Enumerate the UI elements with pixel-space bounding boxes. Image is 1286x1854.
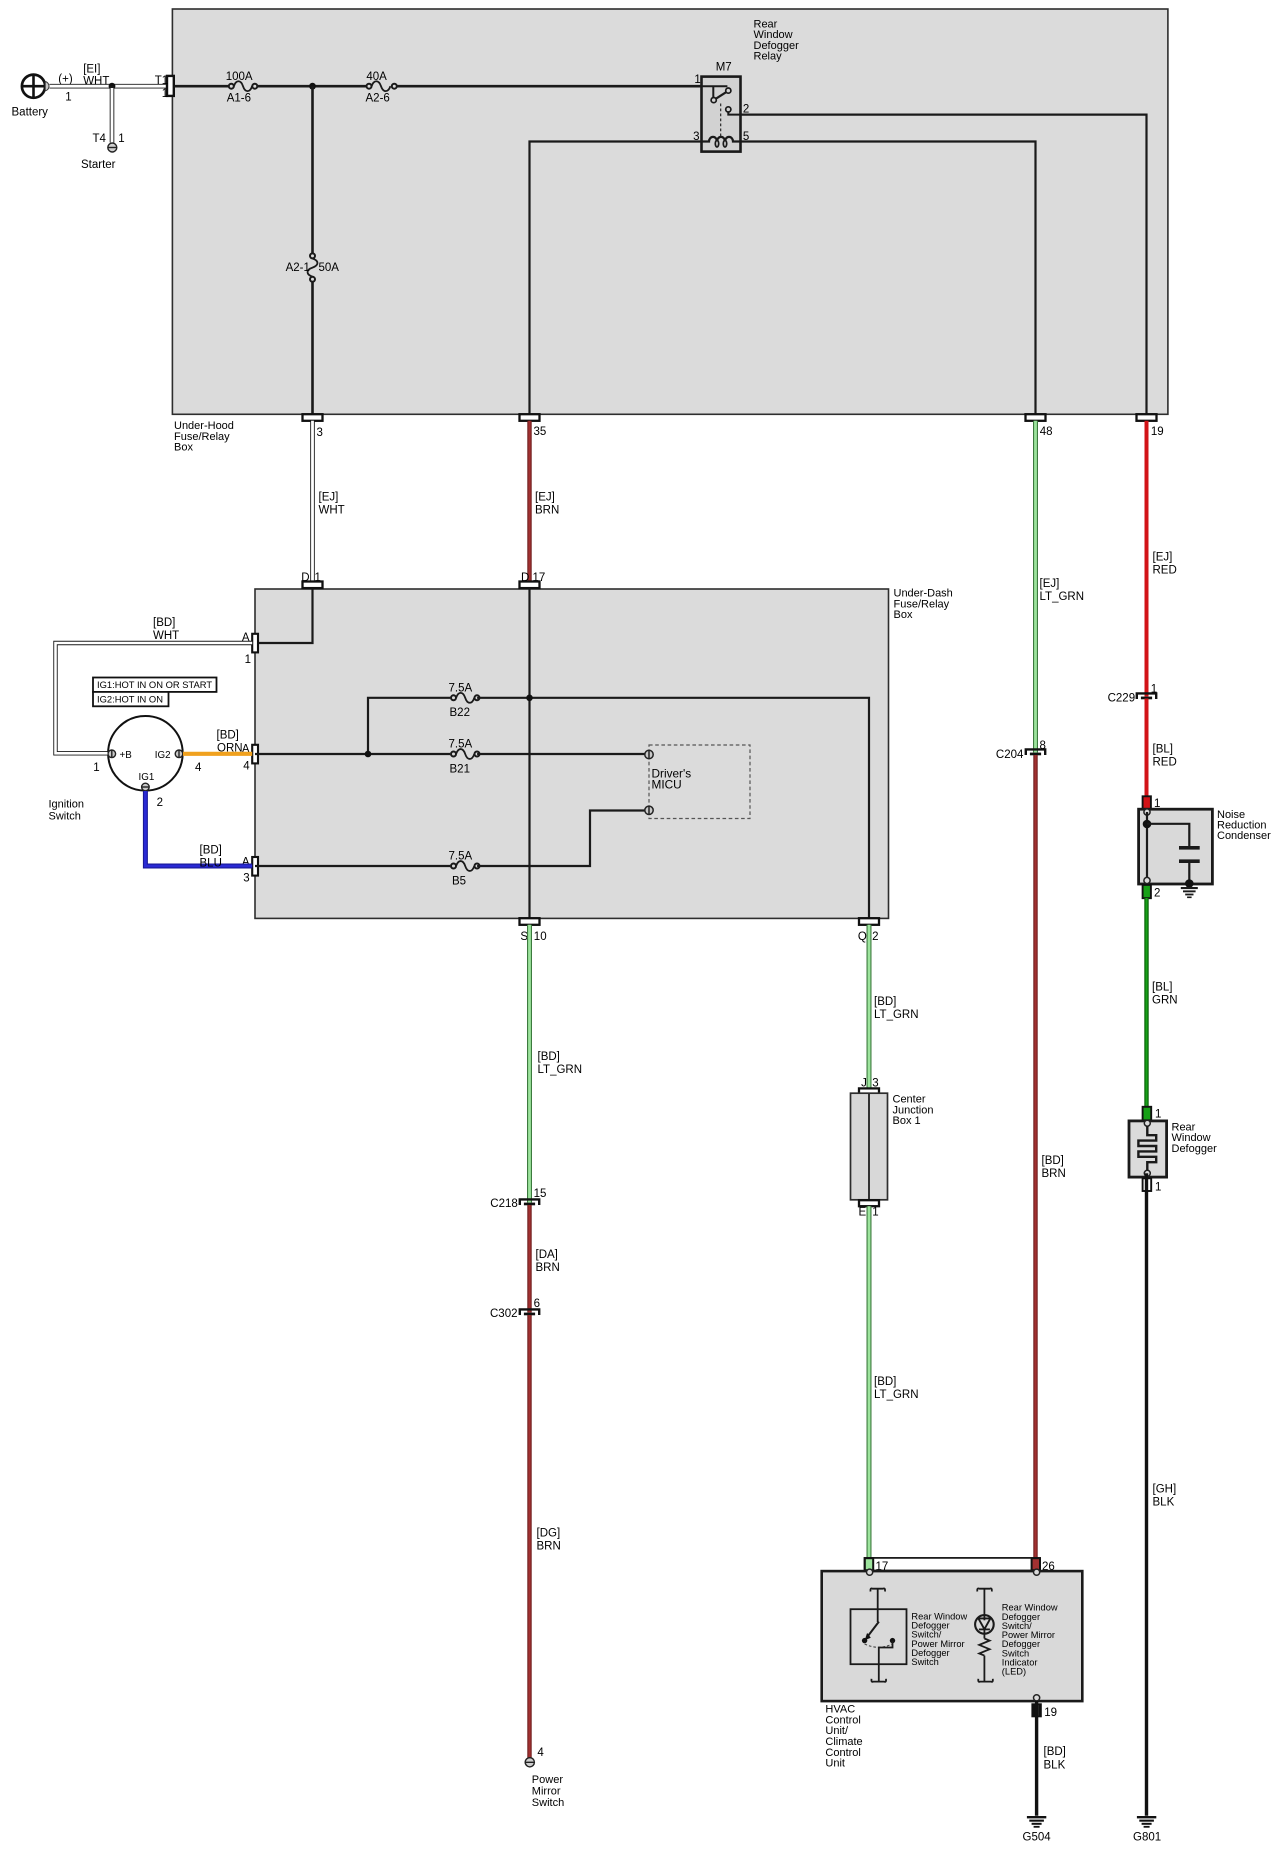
svg-text:40A: 40A: [366, 71, 387, 83]
svg-text:[DA]: [DA]: [536, 1249, 558, 1261]
svg-text:6: 6: [534, 1298, 540, 1310]
LED label text: [1002, 1603, 1058, 1677]
svg-text:2: 2: [872, 931, 878, 943]
svg-text:D: D: [521, 572, 529, 584]
svg-text:[EJ]: [EJ]: [1040, 578, 1060, 590]
battery B1: [12, 74, 73, 119]
power mirror switch terminal 4: [525, 1747, 564, 1809]
svg-text:BLK: BLK: [1044, 1759, 1066, 1771]
svg-text:C229: C229: [1108, 693, 1136, 705]
wire [EI] WHT battery to T1: [50, 64, 168, 88]
svg-text:J: J: [861, 1077, 867, 1089]
svg-text:1: 1: [1155, 1108, 1161, 1120]
connector A pin 1: [242, 632, 258, 666]
rear window defogger box: [1129, 1121, 1217, 1177]
defogger pin 1 bottom connector: [1143, 1173, 1162, 1193]
connector D pin 17: [520, 572, 546, 588]
svg-text:1: 1: [872, 1206, 878, 1218]
svg-text:[BL]: [BL]: [1153, 744, 1173, 756]
wire [BD] LT_GRN S10 to C218: [530, 925, 583, 1203]
connector A pin 3: [242, 857, 258, 885]
wire [BD] BLU IG1 to A3: [145, 791, 252, 870]
svg-text:G504: G504: [1023, 1831, 1052, 1843]
condenser internal wiring: [1143, 812, 1190, 878]
defogger terminals: [1144, 1120, 1150, 1176]
noise reduction condenser box: [1139, 809, 1272, 884]
svg-text:[BD]: [BD]: [538, 1051, 560, 1063]
svg-text:[BD]: [BD]: [200, 845, 222, 857]
fuse A2-1 50A: [286, 253, 340, 281]
terminal pin 35 under-hood: [520, 414, 547, 438]
svg-text:RED: RED: [1153, 565, 1177, 577]
connector S pin 10: [520, 918, 547, 943]
wire [DG] BRN C302 to power mirror switch: [530, 1315, 561, 1758]
svg-text:[EI]: [EI]: [83, 64, 100, 76]
driver's MICU dashed box: [649, 745, 750, 819]
HVAC terminal 26 circle: [1034, 1569, 1040, 1575]
svg-text:1: 1: [315, 572, 321, 584]
svg-text:3: 3: [872, 1077, 878, 1089]
svg-text:3: 3: [243, 873, 249, 885]
svg-text:4: 4: [243, 761, 250, 773]
svg-text:BRN: BRN: [535, 505, 559, 517]
svg-text:B21: B21: [450, 763, 470, 775]
connector J pin 3 center junction box: [859, 1077, 879, 1094]
wire fuse A2-1 to pin 3: [311, 281, 314, 414]
svg-text:T4: T4: [93, 133, 107, 145]
svg-text:35: 35: [534, 426, 547, 438]
svg-text:BLK: BLK: [1153, 1497, 1175, 1509]
connector A pin 4: [242, 744, 258, 773]
fuse 7.5A B21: [449, 739, 480, 776]
svg-text:3: 3: [317, 427, 323, 439]
fuse 40A A2-6: [366, 71, 397, 105]
defogger switch branch top bar: [870, 1588, 885, 1622]
connector C204 pin 8: [996, 740, 1046, 761]
condenser bottom terminal: [1144, 877, 1150, 883]
wire [BD] BLK HVAC to G504: [1037, 1701, 1066, 1816]
wire [GH] BLK defogger to G801: [1147, 1191, 1177, 1816]
svg-text:2: 2: [743, 103, 749, 115]
svg-text:2: 2: [1154, 888, 1160, 900]
ignition +B terminal: [93, 750, 132, 774]
wire relay pin 2 to terminal 19: [741, 115, 1147, 414]
HVAC terminal 19 circle: [1034, 1695, 1040, 1701]
svg-text:Defogger: Defogger: [1172, 1143, 1218, 1155]
node junction battery/starter: [109, 83, 116, 90]
svg-text:WHT: WHT: [83, 75, 109, 87]
switch label text: [911, 1611, 967, 1667]
svg-text:8: 8: [1040, 740, 1046, 752]
wire [EJ] WHT pin3 to D1: [313, 421, 345, 582]
svg-text:100A: 100A: [226, 71, 253, 83]
svg-text:(+): (+): [58, 74, 73, 86]
svg-text:B5: B5: [452, 876, 466, 888]
svg-text:IG1:HOT IN ON OR START: IG1:HOT IN ON OR START: [97, 679, 212, 690]
wire A3 to fuse B5: [255, 865, 450, 867]
center junction box 1: [851, 1093, 934, 1200]
svg-text:5: 5: [743, 131, 749, 143]
svg-text:[EJ]: [EJ]: [1153, 551, 1173, 563]
svg-text:50A: 50A: [319, 262, 340, 274]
wire [BD] ORN IG2 to A4: [183, 730, 252, 755]
defogger switch sub-box: [851, 1609, 907, 1664]
svg-text:[BD]: [BD]: [153, 617, 175, 629]
svg-text:1: 1: [162, 88, 168, 100]
svg-text:19: 19: [1044, 1707, 1057, 1719]
svg-text:[BL]: [BL]: [1152, 982, 1172, 994]
MICU terminal upper: [645, 750, 653, 758]
connector C229 pin 1: [1108, 683, 1158, 704]
svg-text:1: 1: [245, 654, 251, 666]
wire B22 to Q2: [477, 695, 869, 919]
condenser pin 2 connector: [1143, 885, 1161, 900]
connector D pin 1: [301, 572, 322, 588]
terminal pin 19 under-hood: [1137, 414, 1164, 438]
LED branch bottom bar: [978, 1679, 993, 1682]
svg-text:4: 4: [537, 1747, 544, 1759]
MICU terminal lower: [645, 806, 653, 814]
svg-text:17: 17: [533, 572, 546, 584]
HVAC pin 19 connector: [1031, 1703, 1057, 1719]
note box IG2 hot in on: [93, 692, 169, 706]
svg-text:LT_GRN: LT_GRN: [538, 1064, 583, 1076]
svg-text:48: 48: [1040, 426, 1053, 438]
ground inside condenser: [1181, 887, 1198, 898]
terminal pin 48 under-hood: [1026, 414, 1053, 438]
svg-text:Switch: Switch: [911, 1657, 938, 1667]
ignition IG2 terminal: [155, 750, 202, 774]
ground G504: [1023, 1816, 1052, 1843]
svg-text:Q: Q: [858, 931, 867, 943]
svg-text:B22: B22: [450, 707, 470, 719]
svg-text:E: E: [859, 1206, 867, 1218]
HVAC pin 26 connector: [1032, 1558, 1055, 1573]
svg-text:T1: T1: [155, 75, 168, 87]
svg-text:BRN: BRN: [537, 1541, 561, 1553]
svg-text:[EJ]: [EJ]: [319, 492, 339, 504]
svg-text:IG2:HOT IN ON: IG2:HOT IN ON: [97, 693, 163, 704]
svg-text:7.5A: 7.5A: [449, 739, 473, 751]
HVAC terminal 17 circle: [867, 1569, 873, 1575]
wire main battery bus: [175, 85, 702, 88]
connector C218 pin 15: [490, 1188, 546, 1210]
svg-text:A1-6: A1-6: [227, 93, 251, 105]
node junction on bus: [309, 83, 316, 90]
svg-text:C218: C218: [490, 1198, 518, 1210]
terminal pin 3 under-hood: [303, 414, 323, 439]
svg-text:C204: C204: [996, 749, 1024, 761]
svg-text:4: 4: [195, 762, 202, 774]
connector C302 pin 6: [490, 1298, 540, 1320]
LED indicator: [975, 1615, 994, 1638]
ignition IG1 terminal: [139, 772, 164, 809]
wire relay pin 5 to terminal 48: [741, 142, 1036, 415]
svg-text:A2-6: A2-6: [366, 93, 390, 105]
svg-text:15: 15: [534, 1188, 547, 1200]
ground G801: [1133, 1816, 1161, 1843]
switch contacts: [862, 1622, 895, 1682]
svg-text:19: 19: [1151, 426, 1164, 438]
connector Q pin 2: [858, 918, 879, 943]
wire [EJ] RED pin19 to C229: [1147, 421, 1177, 697]
svg-text:Battery: Battery: [12, 106, 49, 118]
wire [EJ] BRN pin35 to D17: [530, 421, 560, 582]
svg-text:GRN: GRN: [1152, 995, 1178, 1007]
relay M7 rear window defogger relay: [693, 62, 749, 152]
svg-text:Mirror: Mirror: [532, 1786, 561, 1798]
svg-text:Relay: Relay: [754, 50, 783, 62]
LED branch top bar: [977, 1588, 992, 1615]
wire A4 to fuses B21/B22: [255, 698, 450, 758]
svg-text:[BD]: [BD]: [217, 730, 239, 742]
wire [BL] RED C229 to condenser: [1147, 699, 1177, 799]
svg-text:1: 1: [65, 92, 71, 104]
svg-text:LT_GRN: LT_GRN: [874, 1009, 919, 1021]
svg-text:Box: Box: [894, 609, 913, 621]
connector E pin 1 center junction box: [859, 1200, 879, 1218]
svg-text:BLU: BLU: [200, 858, 222, 870]
svg-text:BRN: BRN: [536, 1262, 560, 1274]
svg-text:Ignition: Ignition: [49, 799, 84, 811]
svg-text:C302: C302: [490, 1308, 518, 1320]
wire [BD] LT_GRN Q2 to J3: [869, 925, 919, 1089]
svg-text:7.5A: 7.5A: [449, 851, 473, 863]
wire to starter: [110, 86, 115, 142]
svg-text:[BD]: [BD]: [1042, 1155, 1064, 1167]
svg-text:(LED): (LED): [1002, 1667, 1026, 1677]
svg-text:M7: M7: [716, 62, 732, 74]
wire [BL] GRN condenser to rear defogger: [1147, 898, 1178, 1108]
svg-text:[BD]: [BD]: [874, 996, 896, 1008]
fuse 7.5A B5: [449, 851, 480, 888]
wire [BD] BRN C204 to HVAC pin 26: [1036, 755, 1066, 1559]
wire [DA] BRN C218 to C302: [530, 1205, 560, 1313]
svg-text:Starter: Starter: [81, 159, 116, 171]
svg-text:[DG]: [DG]: [537, 1528, 561, 1540]
svg-text:ORN: ORN: [217, 743, 243, 755]
svg-text:RED: RED: [1153, 757, 1177, 769]
defogger grid element: [1138, 1126, 1156, 1171]
svg-text:BRN: BRN: [1042, 1168, 1066, 1180]
svg-text:Switch: Switch: [49, 811, 81, 823]
svg-text:[BD]: [BD]: [1044, 1746, 1066, 1758]
condenser top terminal: [1144, 809, 1150, 815]
svg-text:+B: +B: [120, 750, 133, 761]
svg-text:1: 1: [118, 133, 124, 145]
fuse 7.5A B22: [449, 682, 480, 719]
svg-text:MICU: MICU: [652, 778, 682, 792]
svg-text:WHT: WHT: [319, 505, 345, 517]
HVAC pin 17 connector: [865, 1558, 888, 1573]
svg-text:G801: G801: [1133, 1831, 1161, 1843]
wire D17 to S10 internal: [528, 589, 530, 919]
svg-text:Switch: Switch: [532, 1797, 564, 1809]
wire [BD] LT_GRN E1 to HVAC pin 17: [869, 1206, 919, 1558]
svg-text:D: D: [301, 572, 309, 584]
svg-text:Unit: Unit: [825, 1758, 845, 1770]
under-hood fuse/relay box: [172, 9, 1168, 454]
fuse 100A A1-6: [226, 71, 258, 105]
svg-text:1: 1: [694, 74, 700, 86]
svg-text:[BD]: [BD]: [874, 1376, 896, 1388]
wire bus down to fuse A2-1: [311, 86, 314, 254]
wire B21 to MICU: [477, 753, 645, 755]
LED resistor: [979, 1639, 989, 1682]
svg-text:Box: Box: [174, 442, 193, 454]
svg-text:A2-1: A2-1: [286, 262, 310, 274]
ignition switch: [49, 716, 183, 823]
wire [EJ] LT_GRN pin48 to C204: [1036, 421, 1085, 753]
capacitor C: [1179, 846, 1200, 888]
svg-text:2: 2: [157, 797, 163, 809]
HVAC connector bar: [865, 1558, 1041, 1571]
defogger pin 1 top connector: [1143, 1107, 1162, 1121]
wire D1 to A1 internal: [255, 589, 313, 644]
svg-text:Condenser: Condenser: [1217, 830, 1271, 842]
svg-text:1: 1: [1151, 683, 1157, 695]
svg-text:1: 1: [93, 762, 99, 774]
svg-text:10: 10: [534, 931, 547, 943]
connector T1: [155, 75, 174, 100]
svg-text:[EJ]: [EJ]: [535, 492, 555, 504]
svg-text:WHT: WHT: [153, 630, 179, 642]
HVAC control unit box: [822, 1571, 1083, 1770]
defogger switch bottom bar: [871, 1679, 886, 1682]
svg-text:[GH]: [GH]: [1153, 1484, 1177, 1496]
svg-text:3: 3: [693, 131, 699, 143]
svg-text:Box 1: Box 1: [893, 1115, 921, 1127]
under-dash fuse/relay box: [255, 588, 953, 919]
wire [BD] WHT ignition +B to A1: [56, 617, 253, 753]
svg-text:IG1: IG1: [139, 772, 155, 783]
svg-text:IG2: IG2: [155, 750, 171, 761]
svg-text:LT_GRN: LT_GRN: [874, 1389, 919, 1401]
svg-text:7.5A: 7.5A: [449, 682, 473, 694]
wire B5 to MICU: [477, 811, 645, 867]
starter terminal T4: [81, 133, 125, 171]
component label rear window defogger relay: [754, 19, 800, 63]
svg-text:Power: Power: [532, 1774, 564, 1786]
wire relay pin 3 to terminal 35: [530, 142, 702, 415]
note box IG1 hot in on or start: [93, 678, 217, 692]
svg-text:1: 1: [1155, 1181, 1161, 1193]
condenser pin 1 connector: [1143, 796, 1161, 810]
svg-text:LT_GRN: LT_GRN: [1040, 591, 1085, 603]
